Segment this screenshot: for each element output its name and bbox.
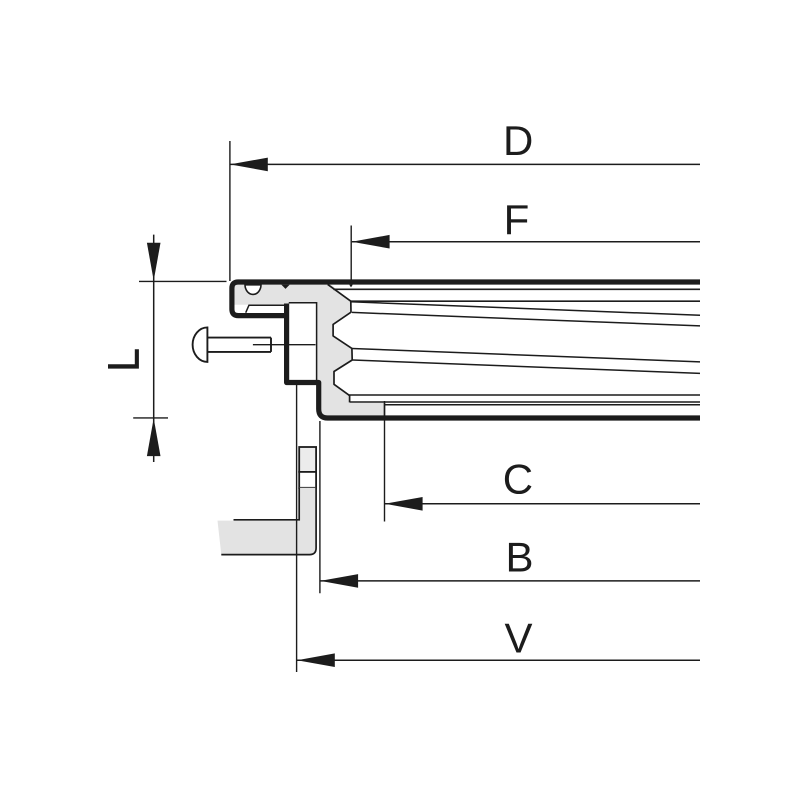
dimension L top arrow: [147, 243, 161, 281]
knurl diagonal 1: [351, 302, 700, 316]
dimension V extension line: [296, 382, 298, 672]
dimension F arrow: [352, 235, 390, 249]
dimension B line: [320, 580, 700, 582]
knurl diagonal 2: [352, 312, 700, 326]
rivet head: [193, 327, 208, 362]
cap outline thick top: [232, 282, 700, 316]
dimension C line: [385, 503, 700, 505]
rivet shaft: [207, 338, 271, 352]
tube line B: [351, 300, 700, 302]
tube lower line 402: [350, 401, 700, 403]
svg-text:F: F: [504, 196, 530, 243]
bracket arm gray: [218, 488, 317, 555]
knurl diagonal 4: [353, 360, 700, 373]
dimension V arrow: [297, 653, 335, 667]
knurl diagonal 3: [352, 349, 700, 362]
dimension L top extension: [139, 280, 227, 282]
dimension L bottom extension: [133, 417, 168, 419]
tube lower line 395: [348, 394, 700, 396]
bracket clamp plate 2: [299, 472, 316, 488]
dimension V line: [297, 659, 700, 661]
dimension C arrow: [385, 497, 423, 511]
cap teeth boundary zigzag: [328, 284, 353, 402]
bracket arm outline: [221, 488, 316, 555]
dimension L label: [108, 349, 139, 368]
end cap gray body: [233, 282, 385, 416]
svg-text:C: C: [503, 456, 533, 503]
dimension L line: [153, 235, 155, 462]
cap flange right edge: [384, 403, 386, 416]
svg-text:V: V: [505, 615, 533, 662]
skirt thin top line: [249, 304, 287, 306]
svg-text:D: D: [503, 117, 533, 164]
slot white window: [289, 303, 317, 380]
rivet centerline: [253, 344, 316, 346]
dimension F line: [352, 241, 700, 243]
dimension D line: [230, 163, 700, 165]
dimension D arrow: [230, 158, 268, 172]
tube top line: [333, 288, 700, 290]
dimension C extension line: [384, 401, 386, 522]
slot outline: [289, 303, 317, 381]
weld notch v right: [349, 285, 353, 288]
dimension D extension line: [229, 141, 231, 281]
dimension B arrow: [320, 574, 358, 588]
bracket clamp plate 1: [299, 447, 316, 472]
skirt joint diagonal tick: [246, 305, 250, 313]
weld notch v left: [281, 285, 289, 289]
rivet hole semicircle: [245, 285, 261, 295]
dimension B extension line: [319, 421, 321, 593]
dimension F extension line: [350, 226, 352, 287]
dimension L bottom arrow: [147, 418, 161, 456]
cap outline thick lower: [287, 304, 700, 419]
tube inner bottom line: [385, 404, 700, 406]
svg-text:B: B: [506, 534, 534, 581]
